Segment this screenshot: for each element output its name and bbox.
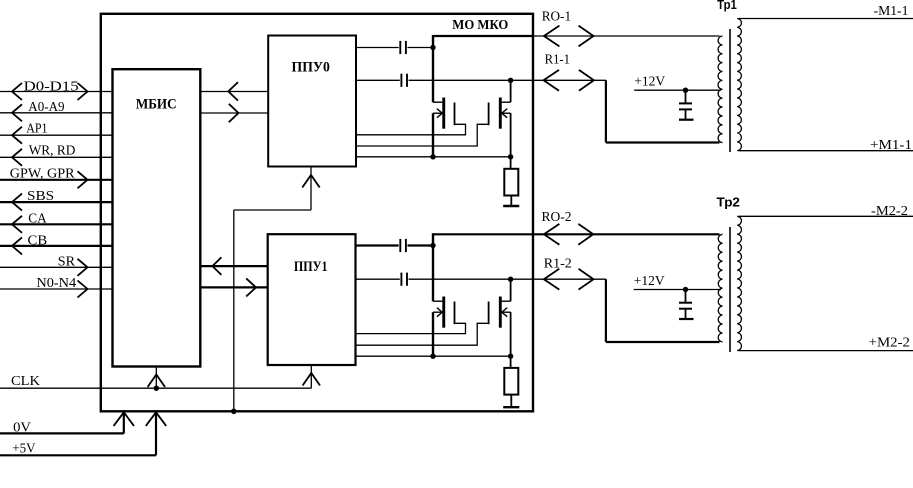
svg-text:RO-2: RO-2: [542, 210, 572, 225]
svg-text:AP1: AP1: [26, 122, 47, 137]
svg-text:A0-A9: A0-A9: [28, 100, 64, 115]
svg-text:ППУ0: ППУ0: [292, 60, 330, 76]
svg-text:GPW, GPR: GPW, GPR: [10, 166, 75, 181]
svg-text:+12V: +12V: [634, 75, 665, 90]
svg-text:SBS: SBS: [27, 189, 54, 204]
svg-text:N0-N4: N0-N4: [36, 276, 76, 291]
svg-text:CA: CA: [28, 211, 47, 226]
svg-text:CLK: CLK: [11, 374, 40, 389]
svg-text:R1-1: R1-1: [545, 53, 570, 68]
svg-text:ППУ1: ППУ1: [294, 259, 328, 275]
svg-text:МО МКО: МО МКО: [452, 18, 508, 33]
svg-text:Тр1: Тр1: [717, 0, 737, 12]
svg-text:+М1-1: +М1-1: [870, 138, 912, 153]
svg-text:SR: SR: [58, 255, 76, 270]
svg-text:CB: CB: [28, 233, 48, 248]
svg-text:+12V: +12V: [634, 274, 665, 289]
svg-text:0V: 0V: [13, 421, 31, 436]
svg-text:МБИС: МБИС: [136, 97, 177, 113]
svg-text:+5V: +5V: [12, 441, 35, 456]
svg-text:D0-D15: D0-D15: [24, 79, 79, 94]
svg-text:-М1-1: -М1-1: [874, 4, 909, 19]
svg-text:WR, RD: WR, RD: [29, 144, 76, 159]
svg-text:RO-1: RO-1: [542, 10, 571, 25]
svg-text:-М2-2: -М2-2: [871, 204, 908, 219]
svg-text:Тр2: Тр2: [717, 194, 740, 209]
svg-text:+М2-2: +М2-2: [869, 336, 910, 351]
svg-text:R1-2: R1-2: [544, 257, 572, 272]
